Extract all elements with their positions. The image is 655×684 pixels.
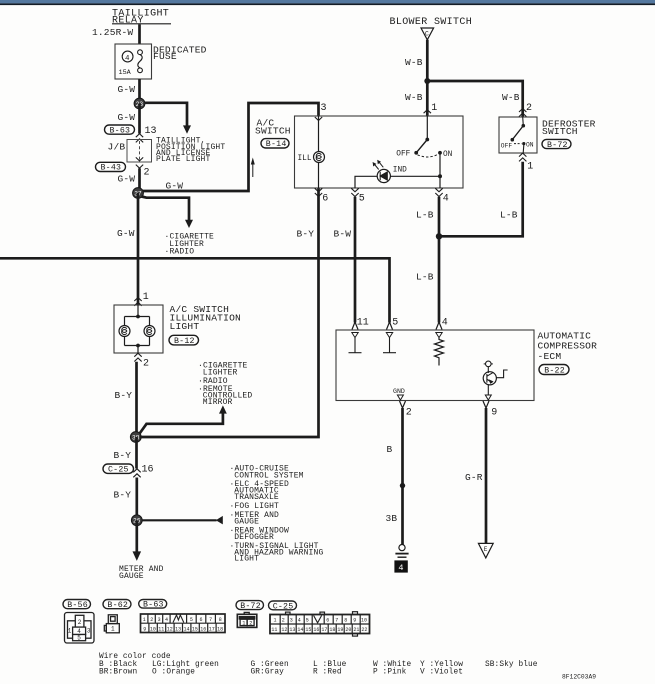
ECM resistor at pin 4 [436, 333, 442, 338]
svg-text:1: 1 [431, 103, 437, 114]
load list CIGARETTE LIGHTER RADIO [165, 233, 215, 257]
svg-text:SB:Sky blue: SB:Sky blue [485, 661, 538, 669]
svg-text:20: 20 [345, 627, 351, 633]
svg-text:GAUGE: GAUGE [119, 572, 144, 581]
svg-text:1: 1 [274, 618, 277, 624]
svg-text:B-63: B-63 [143, 601, 164, 610]
ECM pin 5 internal terminal [386, 333, 392, 338]
svg-text:R :Red: R :Red [313, 668, 342, 676]
junction block J/B box [127, 140, 152, 163]
connector chevrons defroster pin 2 [519, 109, 526, 117]
svg-text:12: 12 [281, 627, 287, 633]
svg-text:9: 9 [491, 408, 497, 419]
svg-text:L-B: L-B [500, 210, 518, 221]
node blower/defroster split [424, 78, 430, 84]
svg-text:ON: ON [526, 142, 534, 149]
load list CIGARETTE LIGHTER RADIO REMOTE CONTROLLED MIRROR [198, 362, 252, 407]
svg-text:8F12C03A9: 8F12C03A9 [562, 674, 596, 681]
arrow to cigarette lighter radio [185, 220, 193, 228]
svg-text:B-63: B-63 [110, 126, 131, 135]
svg-text:4: 4 [165, 617, 168, 623]
svg-text:2: 2 [249, 621, 252, 627]
svg-text:E: E [484, 546, 488, 553]
node bottom bus [125, 345, 150, 347]
svg-text:18: 18 [329, 627, 335, 633]
connector oval C-25 bottom [269, 601, 297, 610]
svg-text:B-43: B-43 [101, 164, 122, 173]
svg-text:8: 8 [219, 617, 222, 623]
automatic compressor ECM box [336, 330, 534, 401]
svg-text:2: 2 [282, 618, 285, 624]
svg-text:15: 15 [192, 626, 198, 632]
svg-text:19: 19 [337, 627, 343, 633]
svg-text:W-B: W-B [405, 92, 423, 103]
svg-text:2: 2 [406, 408, 412, 419]
svg-text:B-14: B-14 [266, 140, 287, 149]
svg-text:-ECM: -ECM [538, 351, 562, 362]
connector oval B-63 [139, 600, 167, 609]
svg-text:13: 13 [289, 627, 295, 633]
svg-text:15A: 15A [119, 69, 132, 77]
svg-text:16: 16 [313, 627, 319, 633]
label AUTOMATIC COMPRESSOR -ECM [538, 330, 598, 362]
svg-text:1.25R-W: 1.25R-W [92, 27, 133, 38]
svg-text:PLATE LIGHT: PLATE LIGHT [156, 155, 211, 164]
svg-text:B-62: B-62 [107, 601, 128, 610]
connector chevrons pin 1 illumination light [134, 298, 141, 306]
load list TAILLIGHT POSITION LIGHT AND LICENSE PLATE LIGHT [156, 137, 225, 165]
A/C switch box [295, 116, 464, 188]
dashed wire inside J/B [139, 141, 141, 161]
svg-text:16: 16 [142, 464, 154, 475]
wire L-B defroster to node [439, 162, 523, 237]
svg-text:B-12: B-12 [174, 337, 195, 346]
connector oval B-63 [105, 125, 135, 134]
svg-text:3: 3 [87, 627, 91, 634]
connector chevrons pin 2 [134, 353, 141, 361]
connector B-56 relay socket [65, 613, 95, 644]
ECM transistor [486, 361, 492, 367]
svg-text:3: 3 [290, 618, 293, 624]
svg-text:1: 1 [143, 617, 146, 623]
wire B-Y junction 38 to C-25 [135, 437, 138, 469]
wire B-Y C-25 to junction 26 [135, 478, 138, 516]
node L-B junction [436, 233, 442, 239]
svg-text:B-Y: B-Y [114, 450, 132, 461]
svg-text:1: 1 [111, 626, 115, 633]
connector oval B-43 [96, 162, 126, 171]
ECM pin 11 internal terminal [352, 333, 358, 338]
svg-text:22: 22 [361, 627, 367, 633]
svg-text:2: 2 [526, 103, 532, 114]
connector oval B-22 [539, 365, 569, 375]
label METER AND GAUGE [119, 565, 164, 581]
arrow to accessory list [216, 516, 223, 525]
top chrome bar [0, 0, 655, 3]
svg-text:4: 4 [398, 563, 403, 573]
svg-text:2: 2 [143, 358, 149, 369]
svg-text:C-25: C-25 [273, 602, 294, 611]
svg-text:10: 10 [361, 618, 367, 624]
svg-text:14: 14 [297, 627, 303, 633]
LED IND [391, 175, 441, 177]
svg-text:IND: IND [393, 166, 407, 174]
connector chevron A/C pin 1 [424, 110, 431, 114]
node splice on B wire [400, 483, 405, 488]
svg-text:5: 5 [359, 194, 365, 205]
connector fork ECM pin 4 [436, 322, 442, 330]
long interconnect wire to page left [0, 258, 390, 322]
arrow to mirror loads [219, 405, 227, 413]
svg-text:1: 1 [527, 161, 533, 172]
svg-text:OFF: OFF [501, 143, 513, 150]
svg-text:6: 6 [326, 618, 329, 624]
svg-text:SWITCH: SWITCH [255, 125, 291, 136]
svg-text:O :Orange: O :Orange [152, 668, 195, 676]
svg-text:C-25: C-25 [108, 466, 129, 475]
svg-text:15: 15 [305, 627, 311, 633]
connector fork ECM pin 2 [400, 401, 406, 408]
svg-text:2: 2 [144, 167, 150, 178]
connector chevrons A/C pin 5 [351, 188, 358, 196]
svg-text:18: 18 [217, 626, 223, 632]
svg-text:BLOWER SWITCH: BLOWER SWITCH [390, 17, 473, 28]
svg-text:J/B: J/B [108, 142, 126, 153]
defroster switch contacts [522, 117, 525, 126]
wire G-W B-43 to junction 37 [138, 168, 141, 190]
svg-text:3: 3 [158, 617, 161, 623]
wire L-B A/C pin 4 to ECM pin 4 [438, 197, 441, 323]
svg-text:16: 16 [200, 626, 206, 632]
svg-text:11: 11 [271, 627, 277, 633]
wire branch junction 38 to remote mirror loads [140, 413, 223, 433]
wire LED to pin 5 [355, 176, 377, 188]
junction 37 [133, 188, 144, 199]
svg-text:C: C [425, 31, 429, 38]
arrow to taillight loads [183, 125, 191, 133]
junction 38 [130, 432, 141, 443]
svg-text:B-22: B-22 [544, 367, 565, 376]
svg-text:13: 13 [145, 126, 157, 137]
svg-text:V :Violet: V :Violet [420, 668, 463, 676]
svg-text:6: 6 [322, 194, 328, 205]
svg-text:3: 3 [321, 103, 327, 114]
svg-text:1: 1 [143, 292, 149, 303]
svg-text:W-B: W-B [405, 57, 423, 68]
fuse element symbol [138, 50, 143, 55]
svg-text:G-W: G-W [166, 181, 184, 192]
dedicated fuse box [115, 44, 152, 79]
connector B-72 [237, 612, 256, 627]
svg-text:G-W: G-W [118, 173, 136, 184]
ground reference black box 4 [394, 560, 407, 572]
lamp 2 [149, 317, 151, 326]
connector oval B-14 [261, 139, 289, 148]
svg-text:B: B [387, 444, 393, 455]
wire junction 26 to meter and gauge [135, 520, 138, 552]
svg-text:7: 7 [335, 618, 338, 624]
svg-text:13: 13 [175, 626, 181, 632]
svg-text:B-Y: B-Y [297, 228, 315, 239]
svg-text:21: 21 [353, 627, 359, 633]
svg-text:·FOG LIGHT: ·FOG LIGHT [230, 502, 280, 511]
svg-text:11: 11 [158, 626, 164, 632]
defroster switch box [499, 117, 537, 153]
connector oval B-62 [103, 600, 131, 609]
body ground symbol [399, 545, 405, 551]
svg-text:BR:Brown: BR:Brown [99, 668, 137, 676]
connector chevrons at B-63 pin 13 [136, 134, 143, 143]
wire G-W fuse to junction 23 [138, 79, 141, 98]
wire B ECM pin 2 to ground [401, 408, 404, 545]
connector oval B-56 [63, 600, 91, 609]
svg-text:4: 4 [443, 194, 449, 205]
connector chevrons at B-43 pin 2 [136, 157, 143, 168]
connector chevron A/C pin 3 [315, 117, 322, 121]
connector oval B-72 [542, 139, 571, 148]
wire W-B blower to node [426, 40, 429, 116]
svg-text:B-72: B-72 [240, 602, 261, 611]
svg-text:9: 9 [353, 618, 356, 624]
connector oval B-12 [169, 335, 199, 345]
wire G-W junction 37 down [137, 193, 140, 305]
svg-text:B-Y: B-Y [114, 489, 132, 500]
svg-text:2: 2 [150, 617, 153, 623]
connector B-62 [104, 615, 119, 633]
svg-text:12: 12 [167, 626, 173, 632]
svg-text:3B: 3B [386, 513, 398, 524]
svg-text:B-56: B-56 [67, 601, 88, 610]
svg-text:17: 17 [321, 627, 327, 633]
label DEFROSTER SWITCH [542, 118, 596, 137]
underline under TAILLIGHT RELAY [112, 23, 171, 25]
svg-text:10: 10 [150, 626, 156, 632]
current direction arrow [251, 158, 255, 178]
junction 26 [131, 515, 142, 526]
wire B-W A/C pin 5 to ECM pin 11 [354, 197, 357, 323]
svg-text:G-W: G-W [118, 112, 136, 123]
svg-text:OFF: OFF [396, 151, 410, 159]
connector chevrons A/C pin 6 [315, 188, 322, 196]
svg-text:LIGHT: LIGHT [170, 321, 200, 332]
svg-text:4: 4 [442, 318, 448, 329]
svg-text:9: 9 [143, 626, 146, 632]
svg-text:4: 4 [125, 55, 130, 63]
svg-text:11: 11 [357, 318, 369, 329]
svg-text:W-B: W-B [502, 92, 520, 103]
wire G-R ECM pin 9 to ground E [485, 408, 488, 543]
label A/C SWITCH [255, 118, 291, 137]
label DEDICATED FUSE [153, 44, 207, 62]
svg-text:17: 17 [209, 626, 215, 632]
A/C switch illumination light box [114, 305, 163, 353]
arrow to meter and gauge [133, 551, 142, 561]
wire color code legend [99, 653, 538, 676]
svg-text:MIRROR: MIRROR [203, 398, 233, 407]
wire branch from junction 23 to taillight loads [145, 103, 187, 126]
wire B-Y junction 38 to A/C pin 6 [140, 188, 319, 437]
svg-text:L-B: L-B [416, 210, 434, 221]
connector fork ECM pin 9 [483, 401, 489, 408]
fuse number circled 4 [122, 51, 133, 62]
junction 23 [134, 98, 145, 109]
lamp feed wire inside [137, 305, 139, 317]
svg-text:P :Pink: P :Pink [373, 668, 407, 676]
lamp ILL wire [318, 116, 320, 152]
wire G-W junction 23 to connector B-63 [138, 104, 141, 134]
svg-text:Wire color code: Wire color code [99, 653, 171, 661]
svg-text:B-Y: B-Y [115, 390, 133, 401]
connector fork ECM pin 5 [387, 322, 393, 330]
svg-text:1: 1 [242, 621, 245, 627]
A/C switch contacts [426, 116, 428, 140]
svg-text:7: 7 [209, 617, 212, 623]
svg-text:2: 2 [78, 619, 82, 626]
connector C-25 grid [270, 612, 370, 636]
svg-text:1: 1 [68, 627, 72, 634]
wire B-Y illumination to junction 38 [135, 362, 138, 433]
wire branch junction 26 to accessory list [142, 519, 217, 521]
svg-text:DEFOGGER: DEFOGGER [234, 533, 274, 542]
svg-text:FUSE: FUSE [153, 51, 177, 62]
connector chevrons A/C pin 4 [435, 188, 442, 196]
svg-text:14: 14 [184, 626, 190, 632]
LED emission arrows [373, 160, 384, 170]
svg-text:6: 6 [200, 617, 203, 623]
svg-text:ON: ON [443, 151, 453, 159]
svg-text:5: 5 [306, 618, 309, 624]
svg-text:SWITCH: SWITCH [542, 126, 578, 137]
connector B-63 grid [141, 614, 226, 633]
svg-text:·RADIO: ·RADIO [165, 248, 195, 257]
wire G-W junction 37 to A/C switch pin 3 [143, 103, 319, 191]
label A/C SWITCH ILLUMINATION LIGHT [170, 304, 242, 332]
svg-text:GND: GND [393, 388, 405, 395]
node LED junction [438, 174, 442, 178]
load list AUTO-CRUISE etc [230, 465, 324, 564]
svg-text:TRANSAXLE: TRANSAXLE [234, 493, 279, 502]
node top bus [136, 315, 140, 319]
lamp 1 [124, 317, 126, 326]
svg-text:5: 5 [392, 318, 398, 329]
svg-text:L-B: L-B [416, 272, 434, 283]
svg-text:GR:Gray: GR:Gray [251, 668, 285, 676]
svg-text:ILL: ILL [298, 155, 312, 163]
connector chevrons C-25 pin 16 [133, 469, 140, 478]
svg-text:5: 5 [77, 635, 81, 642]
wire 1.25R-W from taillight relay to fuse [138, 24, 141, 44]
svg-text:G-W: G-W [118, 84, 136, 95]
wire ON contact down [439, 153, 441, 188]
svg-text:8: 8 [344, 618, 347, 624]
connector fork ECM pin 11 [352, 322, 358, 330]
svg-text:G-R: G-R [465, 472, 483, 483]
svg-text:G-W: G-W [117, 228, 135, 239]
svg-text:LIGHT: LIGHT [234, 555, 259, 564]
blower switch triangle C [421, 28, 434, 40]
wire branch junction 37 to cigarette lighter radio [142, 197, 190, 221]
svg-text:GAUGE: GAUGE [234, 518, 259, 527]
svg-text:B-W: B-W [334, 228, 352, 239]
label TAILLIGHT RELAY [112, 9, 169, 27]
connector oval B-72 bottom [236, 601, 264, 610]
connector oval C-25 [103, 464, 134, 473]
wire W-B node to defroster switch [427, 81, 522, 117]
svg-text:B-72: B-72 [547, 141, 568, 150]
svg-text:5: 5 [190, 617, 193, 623]
connector chevrons defroster pin 1 [519, 153, 526, 161]
svg-text:4: 4 [298, 618, 301, 624]
ground triangle E [478, 543, 493, 558]
